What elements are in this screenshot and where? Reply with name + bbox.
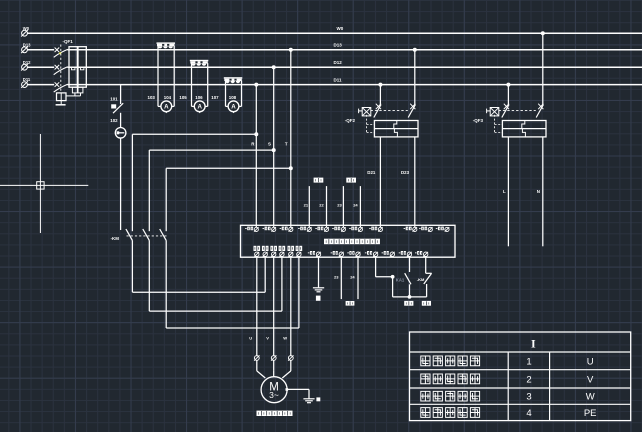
svg-text:N: N <box>537 189 540 194</box>
svg-text:23: 23 <box>337 203 342 208</box>
svg-text:23: 23 <box>334 274 339 279</box>
svg-text:A: A <box>164 103 169 110</box>
svg-text:U: U <box>249 335 252 340</box>
svg-text:S: S <box>268 142 271 147</box>
svg-text:W: W <box>586 392 595 403</box>
svg-text:1: 1 <box>526 356 531 367</box>
svg-text:V: V <box>587 374 594 385</box>
svg-text:-QF1: -QF1 <box>63 39 74 44</box>
svg-text:21: 21 <box>304 203 309 208</box>
svg-text:W0: W0 <box>23 26 30 31</box>
svg-text:L: L <box>503 189 506 194</box>
svg-text:U: U <box>587 356 594 367</box>
svg-text:D13: D13 <box>334 43 343 48</box>
svg-text:3~: 3~ <box>269 390 279 400</box>
svg-text:-QF2: -QF2 <box>345 118 356 123</box>
svg-text:102: 102 <box>110 118 118 123</box>
svg-text:V: V <box>266 335 269 340</box>
svg-text:24: 24 <box>350 274 355 279</box>
svg-text:3: 3 <box>526 392 531 403</box>
svg-text:105: 105 <box>179 95 187 100</box>
svg-text:D11: D11 <box>23 77 31 82</box>
svg-text:W: W <box>283 335 287 340</box>
svg-text:D13: D13 <box>23 42 31 47</box>
svg-text:A: A <box>231 103 236 110</box>
svg-text:4: 4 <box>526 408 531 419</box>
svg-text:D23: D23 <box>401 170 410 175</box>
svg-text:A: A <box>197 103 202 110</box>
svg-text:-KM: -KM <box>111 236 120 241</box>
svg-text:24: 24 <box>353 203 358 208</box>
svg-text:D21: D21 <box>367 170 376 175</box>
svg-text:KA1: KA1 <box>396 278 405 283</box>
svg-text:22: 22 <box>319 203 324 208</box>
svg-text:D12: D12 <box>334 60 343 65</box>
svg-text:-KM: -KM <box>417 277 425 282</box>
svg-text:2: 2 <box>526 374 531 385</box>
svg-text:I: I <box>531 337 536 351</box>
svg-text:106: 106 <box>195 95 203 100</box>
svg-text:101: 101 <box>110 96 118 101</box>
svg-text:107: 107 <box>211 95 219 100</box>
svg-text:D12: D12 <box>23 60 31 65</box>
svg-text:108: 108 <box>229 95 237 100</box>
svg-text:D11: D11 <box>334 77 343 82</box>
svg-text:T: T <box>285 142 288 147</box>
svg-text:PE: PE <box>584 408 597 419</box>
svg-text:103: 103 <box>148 95 156 100</box>
svg-text:W0: W0 <box>337 26 344 31</box>
svg-text:104: 104 <box>164 95 172 100</box>
svg-text:-QF3: -QF3 <box>473 118 484 123</box>
